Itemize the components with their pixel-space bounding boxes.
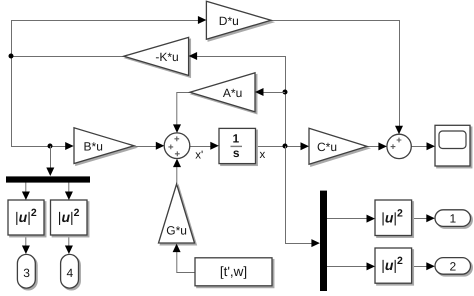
svg-text:4: 4	[66, 266, 73, 280]
arrowhead into sum2 left	[378, 142, 387, 150]
node junction dot x rail at A*u branch	[283, 90, 288, 95]
wire u feedback top horizontal to D*u	[11, 20, 203, 22]
outport 2	[435, 258, 472, 276]
arrowhead into port4	[65, 246, 73, 255]
constant [t',w]	[195, 258, 274, 288]
wire constant to G*u input	[177, 247, 195, 273]
sum S2	[387, 134, 411, 158]
wire D*u output to sum2 top	[271, 21, 400, 131]
wire C*u output to sum2	[367, 146, 383, 148]
wire block4 to port 4	[68, 235, 70, 250]
svg-text:x': x'	[195, 149, 203, 161]
svg-text:1: 1	[232, 132, 239, 146]
block |u|^2 B4	[51, 200, 89, 237]
arrowhead into block1	[367, 215, 376, 223]
arrowhead into port1	[426, 214, 435, 222]
arrowhead into mux1	[46, 168, 54, 177]
node junction dot left rail at -K*u output	[9, 54, 14, 59]
wire x feedback vertical rail	[285, 56, 287, 146]
arrowhead into sum1 top	[173, 124, 181, 132]
node junction dot u branch	[48, 144, 53, 149]
wire block2 to port 2	[412, 266, 431, 268]
gain G*u (pointing up)	[159, 184, 197, 245]
wire mux1 to |u|^2 block3	[25, 183, 27, 197]
arrowhead into C*u	[301, 142, 310, 150]
svg-text:G*u: G*u	[166, 224, 187, 238]
arrowhead into block4	[65, 192, 73, 201]
wire integrator output x to C*u	[256, 146, 306, 148]
svg-text:-K*u: -K*u	[155, 50, 178, 64]
node junction dot x output	[283, 144, 288, 149]
block |u|^2 B1	[375, 200, 413, 237]
arrowhead into block2	[367, 262, 376, 270]
svg-text:D*u: D*u	[219, 14, 239, 28]
gain -K*u	[124, 37, 191, 77]
wire sum1 output x' to integrator	[190, 146, 215, 148]
arrowhead into B*u	[65, 142, 74, 150]
block |u|^2 B3	[8, 200, 46, 237]
arrowhead into G*u	[173, 244, 181, 253]
wire demux2 to |u|^2 block1	[327, 218, 371, 220]
wire u bottom horizontal to B*u	[11, 146, 70, 148]
wire B*u output to sum1	[134, 146, 161, 148]
arrowhead into D*u	[198, 16, 207, 24]
wire -K*u output to left rail	[11, 56, 124, 58]
wire G*u output to sum1 bottom	[176, 162, 178, 184]
arrowhead into sum1 bottom	[173, 159, 181, 168]
sum S1	[164, 133, 190, 159]
block |u|^2 B2	[375, 248, 413, 285]
wire sum2 output to scope	[411, 146, 431, 148]
arrowhead into A*u	[255, 88, 264, 96]
integrator 1/s	[219, 128, 257, 165]
wire u feedback left vertical	[11, 20, 13, 147]
gain D*u	[206, 1, 272, 41]
wire block1 to port 1	[412, 218, 431, 220]
svg-text:x: x	[260, 149, 266, 161]
arrowhead into sum2 top	[395, 126, 403, 135]
gain C*u	[309, 128, 369, 166]
demux2 vertical bar	[320, 191, 327, 291]
wire x rail to -K*u input	[192, 56, 285, 58]
arrowhead into block3	[22, 192, 30, 201]
arrowhead into port2	[426, 262, 435, 270]
arrowhead into scope	[427, 142, 436, 150]
arrowhead into port3	[22, 246, 30, 255]
gain A*u	[190, 73, 257, 114]
svg-text:B*u: B*u	[84, 140, 103, 154]
wire u branch down to mux1	[50, 146, 52, 173]
wire demux2 to |u|^2 block2	[327, 266, 371, 268]
wire x rail to A*u input	[258, 92, 285, 94]
svg-text:C*u: C*u	[317, 140, 337, 154]
outport 3	[17, 254, 37, 290]
svg-text:[t',w]: [t',w]	[220, 264, 247, 279]
scope	[435, 125, 472, 168]
svg-text:3: 3	[23, 266, 30, 280]
arrowhead into demux2	[311, 239, 320, 247]
arrowhead into integrator	[210, 142, 219, 150]
arrowhead into sum1 left	[156, 142, 165, 150]
gain B*u	[74, 128, 136, 166]
wire x branch down to demux2	[286, 146, 317, 244]
arrowhead into -K*u	[189, 52, 198, 60]
svg-text:A*u: A*u	[223, 86, 242, 100]
outport 1	[435, 210, 472, 228]
outport 4	[61, 254, 81, 290]
mux1 horizontal bar	[6, 176, 90, 182]
wire mux1 to |u|^2 block4	[68, 183, 70, 197]
svg-text:1: 1	[449, 212, 456, 226]
wire block3 to port 3	[25, 235, 27, 250]
svg-text:2: 2	[449, 259, 456, 273]
wire A*u output to sum1 top	[177, 93, 190, 130]
svg-text:s: s	[233, 146, 240, 160]
